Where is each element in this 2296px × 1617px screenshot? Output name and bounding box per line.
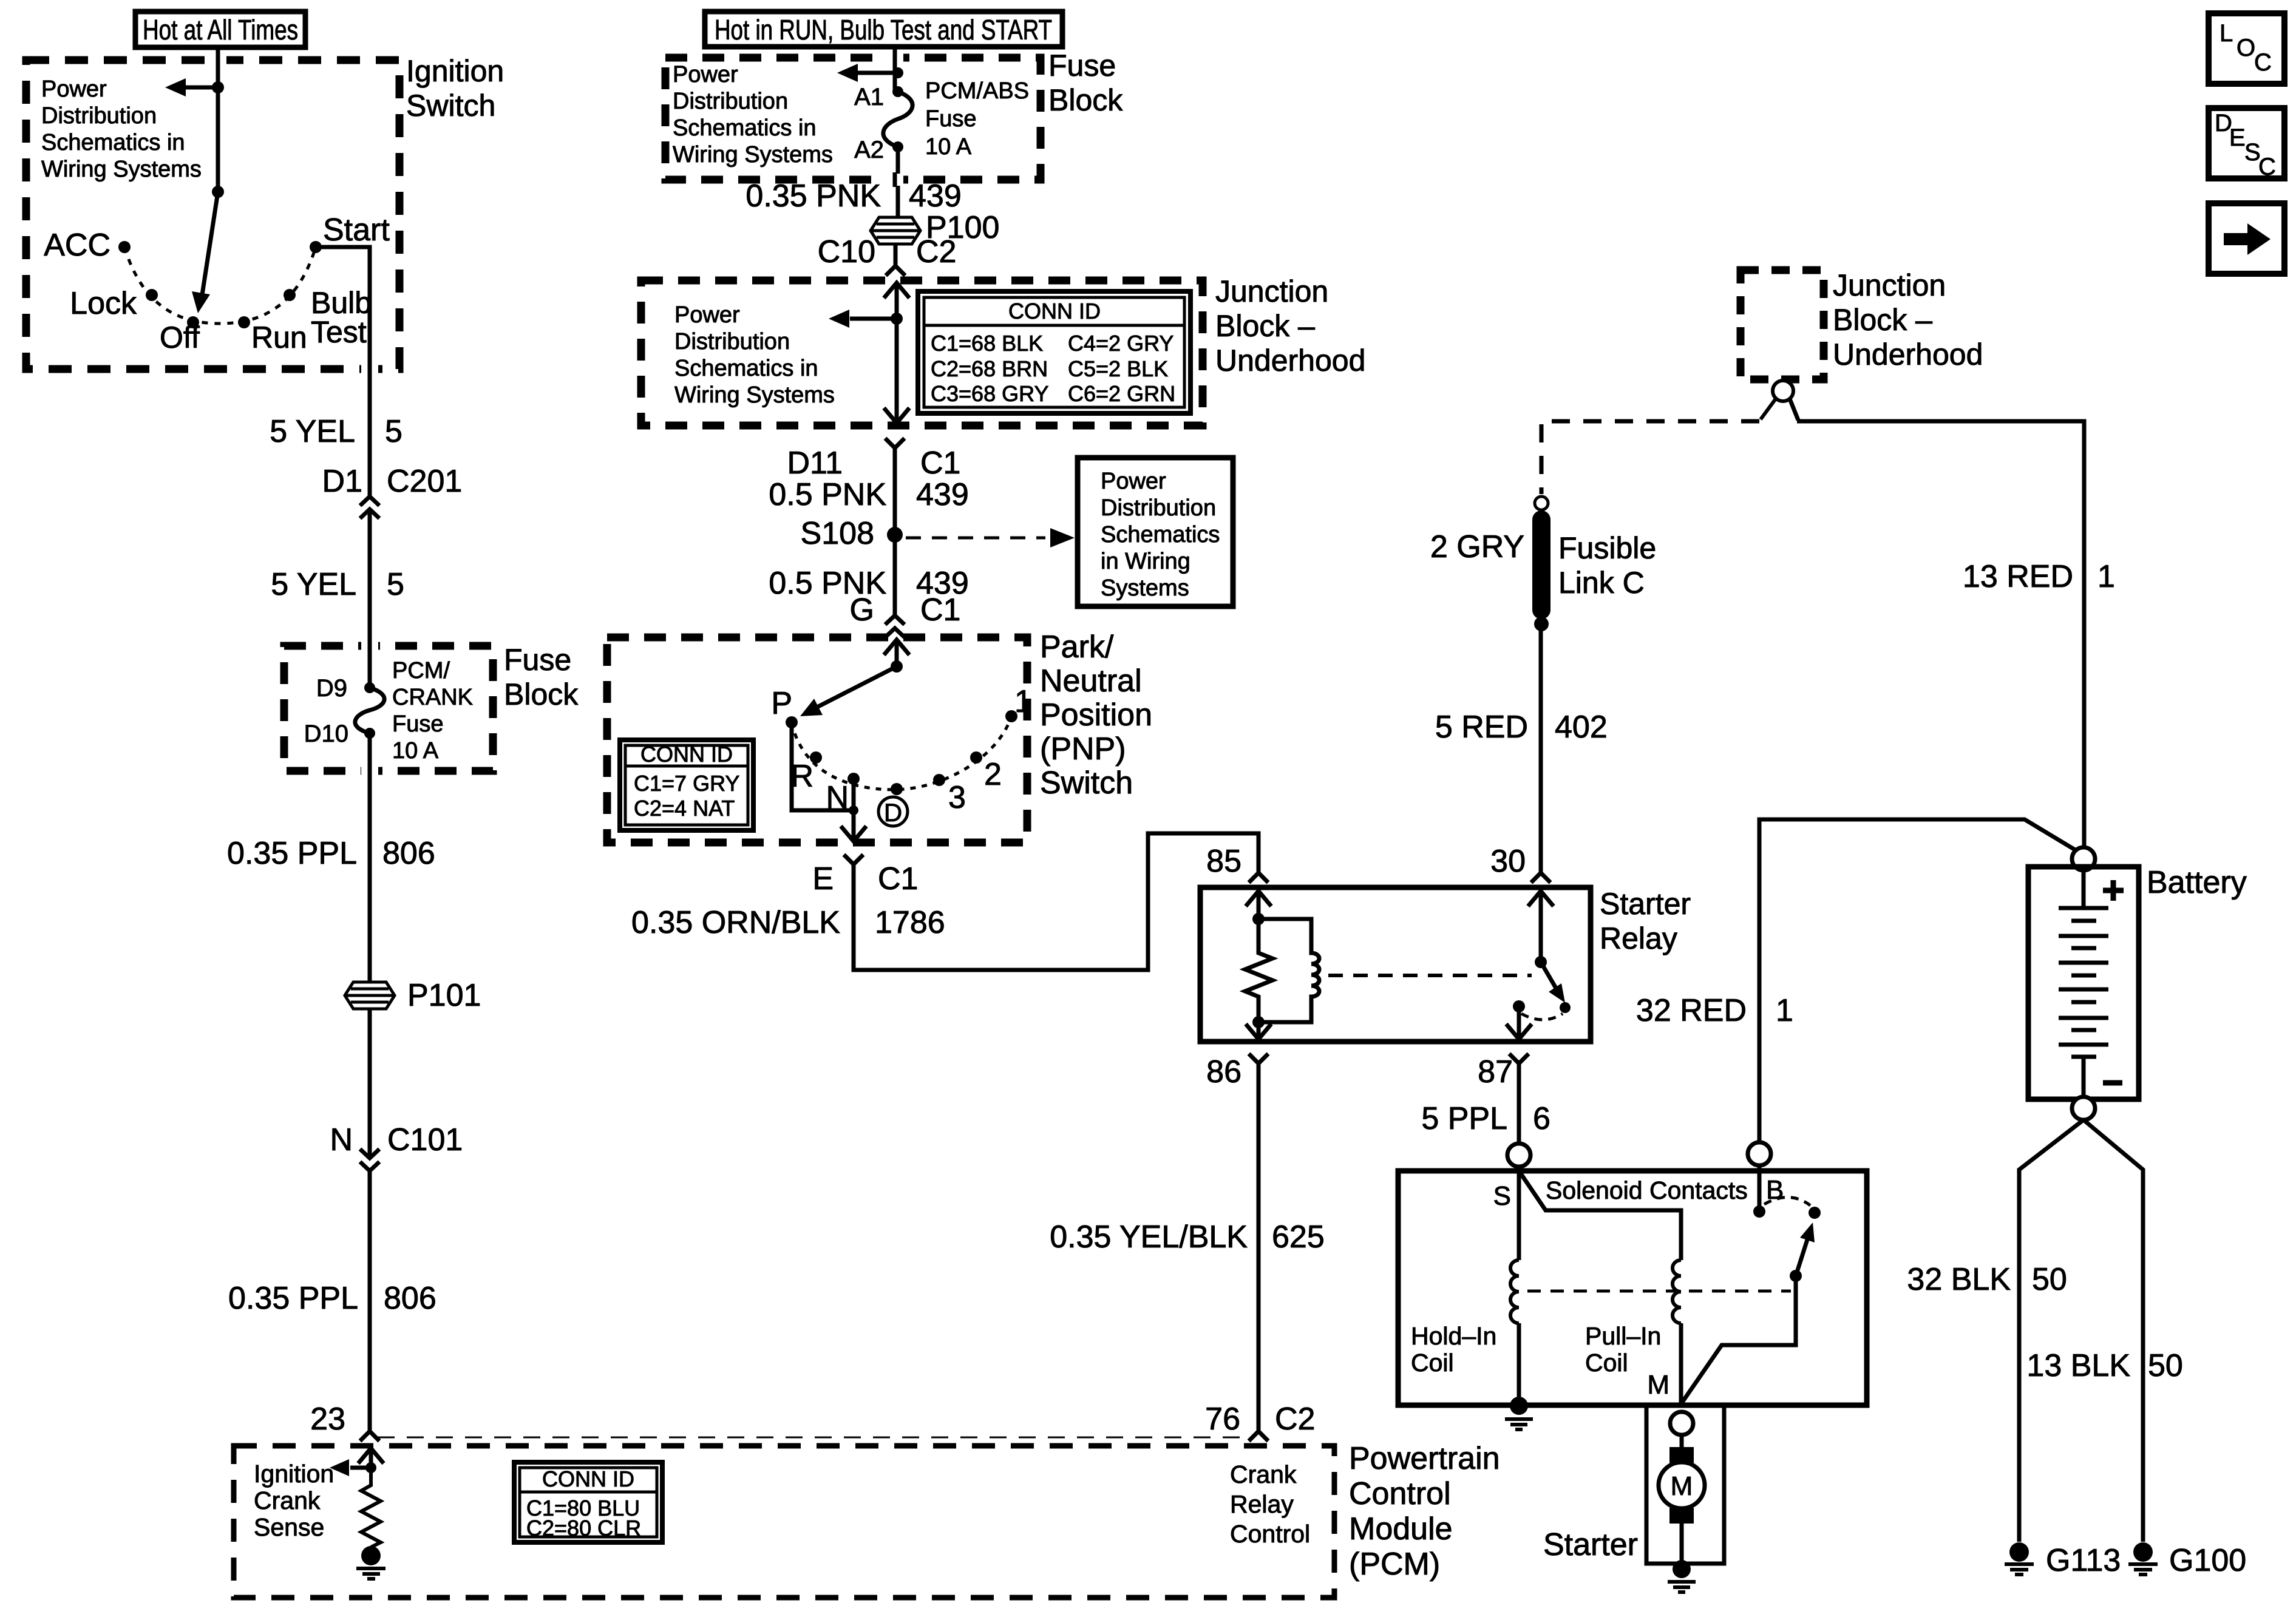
wire through ignition box top edge: [209, 53, 226, 67]
pull-in coil: [1673, 1260, 1681, 1323]
label: Off: [160, 320, 200, 354]
pin label: A2: [854, 137, 884, 163]
svg-text:86: 86: [1206, 1054, 1241, 1090]
svg-text:Underhood: Underhood: [1215, 344, 1365, 378]
terminal dot: D10: [364, 728, 375, 739]
label: Solenoid Contacts: [1546, 1176, 1748, 1204]
wire: moving contact to M: [1681, 1276, 1796, 1404]
svg-text:Control: Control: [1349, 1476, 1451, 1511]
label: 32 BLK 50: [1907, 1262, 2067, 1297]
label: G / C1: [850, 592, 961, 628]
dashed arc: solenoid contact travel: [1764, 1197, 1810, 1205]
junction dot: crank sense node: [365, 1462, 376, 1473]
label: Start: [323, 212, 390, 248]
reference box: Power Distribution Schematics in Wiring Systems: [1078, 458, 1233, 606]
label: Junction Block - Underhood (right): [1833, 268, 1983, 371]
svg-text:5: 5: [387, 567, 404, 602]
contact dot: ACC: [118, 241, 131, 253]
pin label: M: [1647, 1370, 1669, 1400]
junction block underhood enclosure (right, dashed): [1741, 270, 1824, 379]
label: G113: [2046, 1543, 2121, 1578]
svg-text:Distribution: Distribution: [41, 103, 157, 129]
svg-text:5 YEL: 5 YEL: [271, 567, 356, 602]
svg-text:E: E: [2229, 124, 2246, 151]
label: Lock: [70, 286, 137, 321]
label: 3: [948, 780, 966, 815]
svg-text:D10: D10: [304, 720, 348, 747]
svg-text:Ignition: Ignition: [406, 54, 504, 88]
arrow into junction block (top): [884, 283, 909, 319]
battery positive terminal ring: [2072, 847, 2095, 870]
connector fork at PCM pin 23: [360, 1431, 379, 1441]
solenoid ground symbol: [1505, 1419, 1533, 1429]
svg-text:1: 1: [2097, 559, 2115, 594]
battery cells: [2059, 870, 2108, 1097]
label: N: [826, 780, 849, 815]
label: Park/Neutral Position (PNP) Switch: [1040, 629, 1152, 801]
label: 0.5 PNK 439 (lower): [769, 566, 968, 601]
connector fork at 87: [1509, 1054, 1529, 1063]
svg-text:C: C: [2254, 49, 2272, 76]
svg-text:Park/: Park/: [1040, 629, 1114, 665]
pin label: D10: [304, 720, 348, 747]
svg-text:0.35 YEL/BLK: 0.35 YEL/BLK: [1050, 1219, 1248, 1255]
svg-text:0.35 PPL: 0.35 PPL: [227, 836, 357, 871]
svg-text:0.35 PNK: 0.35 PNK: [746, 178, 881, 214]
svg-text:S: S: [1493, 1181, 1511, 1211]
contact dot: Start: [310, 241, 322, 253]
wire: S to hold-in coil: [1517, 1171, 1521, 1260]
svg-text:Module: Module: [1349, 1511, 1453, 1547]
svg-text:C1: C1: [920, 592, 960, 628]
fuse block enclosure (top, dashed): [665, 58, 1041, 180]
svg-text:Coil: Coil: [1411, 1349, 1454, 1377]
arrow out of PNP switch: [841, 810, 866, 841]
label box: Hot in RUN, Bulb Test and START: [705, 12, 1062, 47]
ground G113: [2005, 1542, 2034, 1575]
wire: S to pull-in coil: [1519, 1171, 1681, 1260]
PNP switch enclosure (dashed): [607, 637, 1027, 842]
connector fork C10/C2: [886, 266, 905, 276]
splice S108: [801, 516, 903, 551]
dashed wire: junction block to fusible link: [1541, 399, 1776, 494]
label: PCM/ABS Fuse 10 A: [925, 78, 1029, 160]
label: P101: [407, 978, 481, 1013]
contact dot: 3: [933, 774, 945, 786]
label: 0.5 PNK 439 (upper): [769, 477, 968, 512]
svg-text:32 RED: 32 RED: [1636, 993, 1747, 1028]
svg-text:Link C: Link C: [1558, 566, 1645, 600]
label: Starter: [1543, 1527, 1638, 1562]
svg-text:439: 439: [916, 477, 969, 512]
svg-text:Switch: Switch: [406, 89, 495, 123]
svg-text:C10: C10: [818, 234, 875, 269]
junction dot: feed tap: [212, 81, 224, 93]
label: 1: [1014, 684, 1032, 719]
arrow into PNP switch: [884, 640, 909, 666]
svg-text:Systems: Systems: [1101, 575, 1189, 601]
wire through fuse block bottom edge (left): [361, 764, 378, 778]
svg-text:402: 402: [1555, 710, 1608, 745]
connector C101 (double chevron down): [360, 1149, 379, 1171]
connector C201 (double chevron): [360, 497, 379, 518]
svg-text:806: 806: [384, 1281, 436, 1316]
svg-text:CONN ID: CONN ID: [640, 742, 733, 767]
terminal dot: A2: [892, 141, 903, 152]
svg-text:30: 30: [1490, 844, 1526, 879]
svg-text:85: 85: [1206, 844, 1241, 879]
wire: motor to ground: [1680, 1524, 1684, 1561]
wire: N contact stub: [852, 779, 856, 810]
contact dot: 2: [970, 751, 982, 764]
svg-text:Underhood: Underhood: [1833, 337, 1983, 371]
label: 0.35 PNK 439 (top): [746, 178, 961, 214]
label: Powertrain Control Module (PCM): [1349, 1441, 1500, 1582]
dashed arc: ignition switch positions: [124, 247, 316, 324]
switch wiper arrow to Off: [192, 192, 218, 313]
motor brush (top): [1669, 1447, 1694, 1463]
svg-text:R: R: [790, 759, 813, 794]
wire through fuse block top edge (left): [361, 639, 378, 653]
wire: fusible link to relay 30: [1539, 624, 1543, 873]
arrow: feed to other circuits (junction block): [829, 310, 897, 328]
terminal dot: A1: [892, 86, 903, 97]
svg-text:Block –: Block –: [1215, 309, 1315, 343]
svg-text:5 RED: 5 RED: [1435, 710, 1528, 745]
crank sense resistor: [361, 1473, 381, 1547]
svg-text:Hot in RUN, Bulb Test and STAR: Hot in RUN, Bulb Test and START: [715, 14, 1052, 46]
conn id table (PCM): [514, 1462, 662, 1542]
solenoid switch arm: [1790, 1222, 1815, 1282]
svg-text:1786: 1786: [875, 905, 945, 940]
battery box: [2028, 867, 2139, 1099]
svg-text:Run: Run: [251, 320, 307, 354]
label: 2: [984, 757, 1002, 792]
svg-text:P101: P101: [407, 978, 481, 1013]
label: E / C1: [812, 861, 918, 897]
svg-text:PCM/: PCM/: [392, 658, 450, 683]
wire: hot feed into fuse block: [893, 47, 897, 92]
ring: solenoid B terminal: [1748, 1142, 1771, 1165]
label: D11 / C1: [787, 446, 960, 481]
svg-text:A1: A1: [854, 84, 884, 110]
svg-text:ACC: ACC: [44, 228, 110, 263]
svg-text:C2=68 BRN: C2=68 BRN: [931, 356, 1048, 381]
svg-text:Block: Block: [1048, 83, 1123, 117]
junction dot: wiper pivot: [212, 186, 224, 198]
svg-text:Position: Position: [1040, 697, 1152, 733]
pin label: A1: [854, 84, 884, 110]
terminal label: 86: [1206, 1054, 1241, 1090]
icon: forward arrow: [2209, 203, 2284, 274]
relay switch arm: [1541, 962, 1565, 1003]
arrow: feed to other circuits: [165, 78, 218, 97]
svg-text:C101: C101: [387, 1122, 463, 1158]
svg-text:23: 23: [310, 1402, 345, 1437]
svg-text:Power: Power: [41, 76, 107, 102]
starter relay box: [1200, 887, 1591, 1042]
conn id table (junction block): [918, 291, 1190, 413]
svg-text:D11: D11: [787, 446, 843, 481]
fuse element: PCM/CRANK fuse: [355, 688, 384, 733]
svg-text:Solenoid Contacts: Solenoid Contacts: [1546, 1176, 1748, 1204]
wire: junction block to battery positive (13 RED): [1790, 399, 2084, 847]
inline connector P100: [871, 217, 920, 244]
svg-text:50: 50: [2032, 1262, 2067, 1297]
relay contact dot (moving): [1560, 1002, 1571, 1013]
label: Battery: [2147, 865, 2247, 900]
PCM ground symbol: [356, 1568, 385, 1579]
label: 5 YEL 5 (lower): [271, 567, 404, 602]
connector fork at PCM pin 76: [1249, 1431, 1268, 1441]
svg-text:1: 1: [1014, 684, 1032, 719]
svg-text:C5=2 BLK: C5=2 BLK: [1068, 356, 1168, 381]
solenoid ground dot: [1510, 1397, 1528, 1415]
contact dot: P: [786, 716, 798, 728]
svg-text:E: E: [812, 861, 834, 897]
svg-text:2: 2: [984, 757, 1002, 792]
svg-text:10 A: 10 A: [392, 738, 439, 764]
svg-text:Starter: Starter: [1543, 1527, 1638, 1562]
junction dot: junction block tap: [891, 313, 903, 325]
label: Fuse Block (left): [504, 643, 579, 711]
svg-text:M: M: [1647, 1370, 1669, 1400]
svg-text:Neutral: Neutral: [1040, 663, 1142, 699]
dashed link: solenoid plunger: [1527, 1290, 1791, 1293]
wire: junction block to PNP switch: [893, 448, 897, 615]
solenoid contact dot (B): [1753, 1205, 1765, 1218]
label: PCM/CRANK Fuse 10 A: [392, 658, 473, 764]
label: 13 RED 1: [1963, 559, 2115, 594]
svg-text:50: 50: [2148, 1348, 2183, 1383]
contact dot: N: [847, 773, 860, 785]
relay resistor: [1245, 919, 1272, 1022]
svg-text:C3=68 GRY: C3=68 GRY: [931, 381, 1048, 406]
svg-text:C2=4 NAT: C2=4 NAT: [634, 796, 735, 821]
svg-text:Junction: Junction: [1215, 274, 1328, 308]
junction dot: fuse block feed tap: [892, 67, 903, 78]
icon: LOC: [2209, 13, 2284, 84]
svg-text:PCM/ABS: PCM/ABS: [925, 78, 1029, 104]
label: 0.35 ORN/BLK 1786: [631, 905, 945, 940]
note: power distribution reference (junction block): [674, 302, 835, 408]
label: Fuse Block (top): [1048, 49, 1123, 117]
label: Starter Relay: [1600, 887, 1691, 955]
svg-text:Junction: Junction: [1833, 268, 1946, 302]
connector fork at 30: [1531, 873, 1550, 883]
svg-text:Power: Power: [1101, 469, 1166, 494]
svg-text:Power: Power: [673, 62, 738, 87]
svg-text:C1: C1: [878, 861, 918, 897]
arrow out of relay pin 87: [1506, 1006, 1532, 1039]
connector fork E/C1: [844, 855, 863, 864]
svg-text:C6=2 GRN: C6=2 GRN: [1068, 381, 1175, 406]
note: Ignition Crank Sense: [254, 1460, 334, 1541]
svg-text:Fuse: Fuse: [1048, 49, 1116, 83]
note: power distribution reference (ignition switch): [41, 76, 202, 182]
svg-text:Battery: Battery: [2147, 865, 2247, 900]
arrow out of relay pin 86: [1246, 1022, 1271, 1039]
svg-text:6: 6: [1533, 1101, 1550, 1136]
svg-text:2 GRY: 2 GRY: [1430, 529, 1524, 564]
wire: C101 to PCM: [368, 1171, 372, 1431]
svg-text:D: D: [884, 798, 902, 827]
svg-text:Control: Control: [1230, 1520, 1310, 1548]
icon: DESC: [2209, 108, 2284, 180]
relay coil: [1258, 919, 1319, 1022]
junction dot: relay coil bottom: [1252, 1016, 1265, 1028]
svg-text:D1: D1: [322, 464, 362, 499]
label: 76 / C2: [1205, 1402, 1315, 1437]
svg-text:Hot at All Times: Hot at All Times: [143, 14, 298, 46]
svg-text:O: O: [2237, 35, 2255, 61]
svg-text:13 BLK: 13 BLK: [2026, 1348, 2130, 1383]
svg-text:0.35 ORN/BLK: 0.35 ORN/BLK: [631, 905, 840, 940]
svg-text:Relay: Relay: [1230, 1490, 1294, 1518]
label: 0.35 YEL/BLK 625: [1050, 1219, 1325, 1255]
label: P: [771, 686, 792, 721]
svg-text:0.35 PPL: 0.35 PPL: [228, 1281, 358, 1316]
svg-text:A2: A2: [854, 137, 884, 163]
wire: M terminal to motor: [1680, 1434, 1684, 1447]
wire: PNP switch to starter relay coil (85): [854, 833, 1258, 970]
pin label: B: [1766, 1175, 1784, 1205]
relay contact dot (87): [1513, 1000, 1525, 1012]
svg-text:Sense: Sense: [254, 1513, 324, 1541]
arrow into relay pin 30: [1528, 891, 1554, 962]
label: ACC: [44, 228, 110, 263]
svg-text:CONN ID: CONN ID: [1008, 299, 1101, 324]
label: G100: [2169, 1543, 2246, 1578]
label: 5 PPL 6: [1421, 1101, 1550, 1136]
svg-text:CRANK: CRANK: [392, 685, 473, 710]
battery plus sign: [2103, 880, 2124, 901]
svg-text:Crank: Crank: [254, 1486, 321, 1514]
hold-in coil: [1510, 1260, 1519, 1323]
svg-text:13 RED: 13 RED: [1963, 559, 2073, 594]
label: 0.35 PPL 806 (upper): [227, 836, 435, 871]
terminal label: 85: [1206, 844, 1241, 879]
svg-text:Starter: Starter: [1600, 887, 1691, 921]
svg-text:C201: C201: [387, 464, 462, 499]
starter housing: [1646, 1405, 1724, 1564]
label: 0.35 PPL 806 (lower): [228, 1281, 436, 1316]
svg-text:N: N: [330, 1122, 353, 1158]
conn id table (PNP): [620, 740, 753, 830]
svg-text:10 A: 10 A: [925, 134, 972, 160]
label: Pull-In Coil: [1585, 1322, 1661, 1377]
svg-text:Distribution: Distribution: [1101, 495, 1216, 521]
svg-text:Fusible: Fusible: [1558, 531, 1656, 565]
svg-text:Fuse: Fuse: [392, 711, 443, 737]
note: power distribution reference (fuse block): [673, 62, 833, 168]
terminal label: 87: [1478, 1054, 1513, 1090]
ring: fusible link top: [1535, 497, 1548, 510]
svg-text:G113: G113: [2046, 1543, 2121, 1578]
svg-text:Wiring Systems: Wiring Systems: [41, 157, 202, 182]
svg-text:32 BLK: 32 BLK: [1907, 1262, 2011, 1297]
svg-text:5: 5: [385, 414, 402, 449]
svg-text:P: P: [771, 686, 792, 721]
wire: pull-in coil to M: [1679, 1323, 1683, 1404]
svg-text:G: G: [850, 592, 874, 628]
svg-text:in Wiring: in Wiring: [1101, 549, 1190, 574]
dashed arc: PNP positions: [792, 716, 1011, 790]
battery negative terminal ring: [2072, 1097, 2095, 1120]
svg-text:C1: C1: [920, 446, 960, 481]
arrow: ignition crank sense: [330, 1459, 371, 1476]
wire: relay 86 to PCM (crank relay control): [1257, 1063, 1261, 1431]
ring: solenoid M terminal: [1670, 1412, 1693, 1435]
wire through ignition box bottom edge: [361, 362, 378, 376]
label: D (circled): [878, 797, 908, 827]
junction dot: PNP output: [849, 805, 858, 815]
stud ring on junction block: [1773, 381, 1793, 401]
wire: P to N junction: [792, 722, 854, 810]
svg-text:5 YEL: 5 YEL: [270, 414, 355, 449]
starter motor M: [1659, 1462, 1705, 1508]
label: D1 / C201: [322, 464, 463, 499]
junction dot: fusible link bottom: [1534, 617, 1549, 631]
wire: fuse to P101: [368, 733, 372, 982]
svg-text:Fuse: Fuse: [504, 643, 571, 677]
starter solenoid box: [1398, 1171, 1867, 1405]
svg-text:Powertrain: Powertrain: [1349, 1441, 1500, 1476]
svg-text:Power: Power: [674, 302, 740, 328]
label: P100: [926, 210, 999, 245]
label: R: [790, 759, 813, 794]
svg-text:Hold–In: Hold–In: [1411, 1322, 1496, 1350]
svg-text:C4=2 GRY: C4=2 GRY: [1068, 331, 1173, 356]
junction dot: relay coil top: [1252, 913, 1265, 925]
label: 2 GRY: [1430, 529, 1524, 564]
svg-text:Block –: Block –: [1833, 303, 1932, 337]
svg-text:Fuse: Fuse: [925, 106, 976, 132]
wire through fuse block bottom edge (middle): [886, 172, 903, 187]
svg-text:Schematics in: Schematics in: [673, 115, 817, 141]
wire: relay 87 to solenoid S: [1517, 1063, 1521, 1144]
svg-text:Pull–In: Pull–In: [1585, 1322, 1661, 1350]
wire: hold-in coil to ground: [1517, 1323, 1521, 1404]
dashed link: relay coil to contacts: [1328, 974, 1532, 977]
junction dot: PNP wiper pivot: [891, 660, 903, 673]
wire: battery feed into ignition switch: [216, 47, 220, 192]
svg-text:Lock: Lock: [70, 286, 137, 321]
svg-text:Block: Block: [504, 677, 579, 711]
svg-text:76: 76: [1205, 1402, 1240, 1437]
contact dot: 1: [1005, 710, 1017, 722]
svg-text:(PCM): (PCM): [1349, 1547, 1440, 1582]
fuse block enclosure (left, dashed): [284, 646, 493, 771]
svg-text:Wiring Systems: Wiring Systems: [674, 382, 835, 408]
svg-text:S108: S108: [801, 516, 874, 551]
svg-text:Start: Start: [323, 212, 390, 248]
PCM enclosure (dashed): [234, 1446, 1334, 1598]
svg-text:Coil: Coil: [1585, 1349, 1628, 1377]
wire through fuse block top edge (middle): [886, 50, 903, 65]
arrow out of junction block (bottom): [884, 408, 909, 423]
label: N / C101: [330, 1122, 463, 1158]
wire: fuse A2 to P100: [896, 147, 900, 217]
wire: battery negative split: [2019, 1120, 2143, 1542]
svg-text:3: 3: [948, 780, 966, 815]
junction block underhood enclosure (dashed): [641, 280, 1203, 425]
contact dot: Off: [187, 316, 199, 328]
svg-text:L: L: [2220, 20, 2233, 47]
label: Junction Block - Underhood (left): [1215, 274, 1365, 378]
svg-text:(PNP): (PNP): [1040, 731, 1126, 767]
ignition switch enclosure (dashed): [26, 60, 399, 369]
